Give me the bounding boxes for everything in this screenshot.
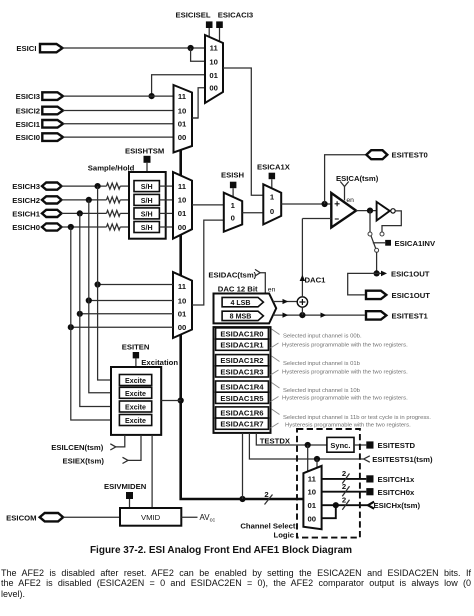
node bus to DAC (239, 496, 245, 502)
svg-text:S/H: S/H (141, 211, 153, 219)
S/H cell 3 (134, 208, 159, 219)
svg-text:TESTDX: TESTDX (260, 436, 291, 445)
svg-text:01: 01 (178, 120, 187, 129)
node comparator output (367, 208, 373, 214)
bus width marker 2 (264, 490, 272, 505)
svg-text:ESICA1X: ESICA1X (257, 162, 291, 171)
pin ESICH1 (12, 209, 61, 218)
svg-text:ESIDAC1R4: ESIDAC1R4 (220, 383, 264, 392)
wire ESICI to mux U1 input 11 (63, 47, 206, 49)
node ESICH0 (68, 224, 74, 230)
wire mux U1 output to ESICA1X mux input 1 (223, 68, 263, 195)
wire 4LSB to summer (273, 299, 297, 304)
node ESICH1 (77, 210, 83, 216)
control square ESICA1INV (373, 239, 436, 248)
signal ESIEX (62, 435, 141, 466)
node 8MSB to summer (299, 307, 305, 318)
svg-text:Selected input channel is 11b: Selected input channel is 11b or test cy… (283, 415, 431, 421)
svg-text:Hysteresis programmable with t: Hysteresis programmable with the two reg… (285, 422, 411, 428)
svg-text:1: 1 (270, 193, 275, 202)
svg-text:ESICA(tsm): ESICA(tsm) (336, 174, 379, 183)
svg-text:0: 0 (270, 207, 274, 216)
svg-text:ESICA1INV: ESICA1INV (395, 239, 436, 248)
svg-text:10: 10 (178, 296, 187, 305)
wire ESICI3 branch to mux U1 input 01 (152, 75, 205, 96)
svg-text:10: 10 (209, 57, 218, 66)
wire to ESITEST0 (325, 155, 366, 204)
svg-text:ESIC1OUT: ESIC1OUT (392, 291, 431, 300)
pin ESICI0 (16, 133, 63, 142)
paragraph (1, 568, 471, 599)
inverter U5 (377, 202, 396, 221)
svg-text:ESICISEL: ESICISEL (176, 11, 211, 20)
svg-text:Hysteresis programmable with t: Hysteresis programmable with the two reg… (282, 342, 408, 348)
node rail CH1 (77, 311, 83, 317)
wire switch common down (376, 252, 378, 273)
excite cell 4 (119, 415, 151, 426)
summer (adder) (297, 297, 307, 307)
svg-text:00: 00 (178, 323, 187, 332)
VMID block (120, 508, 181, 526)
wire excitation to VMID (151, 435, 153, 508)
node comparator input (322, 201, 328, 207)
resistor R4 (107, 224, 121, 230)
switch common (375, 248, 379, 252)
tsm arrow ESICHx (368, 501, 421, 510)
wire comparator output (356, 210, 377, 212)
node bus to excitation (178, 397, 184, 403)
svg-text:S/H: S/H (141, 183, 153, 191)
svg-text:ESIDAC1R7: ESIDAC1R7 (220, 420, 263, 429)
wire mux U2 output to mux U1 input 00 (192, 88, 205, 118)
wire ESICI1 to mux U2 input 01 (63, 123, 174, 125)
svg-text:01: 01 (308, 501, 317, 510)
pin ESICH0 (12, 223, 61, 232)
channel select bus (vertical) (181, 150, 304, 499)
svg-text:Excitation: Excitation (141, 358, 178, 367)
wire VMID to AVcc (181, 513, 215, 524)
svg-text:AVcc: AVcc (200, 513, 216, 524)
svg-text:00: 00 (308, 514, 317, 523)
svg-text:ESITCH0x: ESITCH0x (378, 488, 415, 497)
svg-text:Channel Select: Channel Select (240, 521, 296, 530)
register ESIDAC1R3 (216, 366, 269, 377)
svg-text:10: 10 (308, 488, 317, 497)
pin ESICI1 (16, 120, 63, 129)
svg-text:10: 10 (178, 106, 187, 115)
port square ESITCH0x (366, 488, 415, 497)
wire mux U2 output (192, 117, 198, 119)
pin ESICI3 (16, 92, 63, 101)
svg-text:ESICH3: ESICH3 (12, 182, 40, 191)
wire TESTDX (256, 433, 327, 445)
svg-text:11: 11 (308, 475, 317, 484)
signal arrow ESIC1OUT (377, 269, 430, 278)
pin ESIC1OUT (366, 291, 430, 300)
mux channel select decode (303, 466, 321, 529)
annotation R4/R5 (271, 383, 409, 402)
wire ESICH2 with resistor to S/H 2 (62, 199, 107, 201)
svg-text:ESICH0: ESICH0 (12, 223, 40, 232)
svg-text:Hysteresis programmable with t: Hysteresis programmable with the two reg… (282, 396, 408, 402)
svg-text:ESIDAC1R6: ESIDAC1R6 (220, 409, 263, 418)
svg-text:ESICI1: ESICI1 (16, 120, 41, 129)
switch lever (371, 236, 376, 249)
wire ESICI0 to mux U2 input 00 (63, 136, 174, 138)
svg-text:01: 01 (178, 310, 187, 319)
mux U3 (S/H select) (173, 172, 192, 239)
svg-text:Sample/Hold: Sample/Hold (88, 164, 135, 173)
annotation R2/R3 (271, 356, 409, 375)
register 4 LSB (222, 297, 263, 306)
node ESIC1OUT (374, 270, 380, 276)
svg-text:ESIDAC1R5: ESIDAC1R5 (220, 394, 264, 403)
control square ESICA1X (269, 173, 276, 189)
mux ESISH (224, 193, 242, 232)
sync block (327, 437, 354, 452)
caption (0, 545, 442, 556)
svg-text:Excite: Excite (125, 417, 146, 425)
svg-text:ESIVMIDEN: ESIVMIDEN (104, 482, 147, 491)
mux U4 (direct channel select) (173, 272, 192, 338)
pin ESICH3 (12, 182, 61, 191)
svg-text:ESISH: ESISH (221, 170, 245, 179)
svg-text:ESIDAC1R3: ESIDAC1R3 (220, 367, 263, 376)
svg-text:en: en (346, 197, 354, 204)
pin ESITEST1 (366, 311, 429, 320)
svg-text:Excite: Excite (125, 390, 146, 398)
control square ESISHTSM (144, 156, 151, 172)
svg-text:Selected input channel is 01b: Selected input channel is 01b (283, 361, 361, 367)
svg-text:ESITESTD: ESITESTD (378, 441, 416, 450)
resistor R3 (107, 210, 121, 216)
svg-text:ESICH1: ESICH1 (12, 209, 40, 218)
annotation R6/R7 (271, 409, 432, 428)
svg-text:ESICHx(tsm): ESICHx(tsm) (374, 501, 421, 510)
svg-text:S/H: S/H (141, 197, 153, 205)
control square ESISH (230, 182, 237, 197)
svg-text:ESISHTSM: ESISHTSM (125, 146, 164, 155)
register ESIDAC1R2 (216, 355, 269, 366)
svg-text:00: 00 (178, 223, 187, 232)
svg-text:1: 1 (231, 201, 236, 210)
svg-text:Sync.: Sync. (330, 441, 350, 450)
svg-text:VMID: VMID (141, 513, 161, 522)
wire mux U4 output to ESISH input 0 (192, 220, 224, 305)
control square ESITEN (133, 352, 139, 367)
node ESICH2 (86, 197, 92, 203)
sample/hold block (129, 172, 166, 239)
mux ESICA1X (263, 184, 281, 224)
wire mux U3 output to ESISH input 1 (192, 204, 224, 206)
svg-text:2: 2 (342, 469, 346, 478)
excite cell 2 (119, 387, 151, 398)
wire out 11 to ESITCH1x (322, 469, 367, 484)
rail CH0 (71, 227, 120, 420)
svg-text:ESIDAC1R1: ESIDAC1R1 (220, 341, 264, 350)
wire out 10 to ESITCH0x (322, 482, 367, 497)
svg-text:ESIDAC1R2: ESIDAC1R2 (220, 356, 263, 365)
wire comparator direct to switch (369, 211, 371, 232)
node rail CH3 (95, 281, 101, 287)
svg-text:ESICACI3: ESICACI3 (218, 11, 253, 20)
excite cell 1 (119, 375, 151, 386)
svg-text:ESIDAC1R0: ESIDAC1R0 (220, 330, 263, 339)
wire out 01 to ESICHx (322, 495, 368, 510)
pin ESICH2 (12, 196, 61, 205)
svg-text:Logic: Logic (274, 530, 295, 539)
svg-text:DAC 12 Bit: DAC 12 Bit (218, 284, 258, 293)
wires channel rails to mux U4 (98, 284, 173, 286)
register ESIDAC1R6 (216, 407, 269, 418)
pin ESICOM (6, 513, 63, 523)
svg-text:en: en (268, 286, 276, 293)
mux U2 (ESICI3-0 select) (174, 85, 193, 153)
wire ESISH output to ESICA1X input 0 (242, 212, 263, 214)
wire inverter output loop (382, 211, 401, 232)
excite cell 3 (119, 401, 151, 412)
svg-text:2: 2 (264, 490, 268, 499)
svg-text:Selected input channel is 10b: Selected input channel is 10b (283, 388, 361, 394)
svg-text:ESICH2: ESICH2 (12, 196, 40, 205)
node on ESICI3 wire (149, 93, 155, 99)
svg-text:Hysteresis programmable with t: Hysteresis programmable with the two reg… (282, 369, 408, 375)
DAC block (214, 294, 277, 324)
register ESIDAC1R1 (216, 339, 269, 350)
resistor R2 (107, 197, 121, 203)
pin ESICI2 (16, 107, 63, 116)
wire out 00 joins 01 (322, 505, 336, 518)
svg-text:10: 10 (178, 196, 187, 205)
wire ESICOM to VMID (63, 516, 120, 518)
node rail CH2 (86, 297, 92, 303)
excitation block (111, 367, 161, 435)
register ESIDAC1R5 (216, 392, 269, 403)
wires S/H to mux U3 (159, 185, 173, 187)
wire DAC1 to comparator minus (300, 219, 332, 297)
tsm arrow into DAC en (255, 269, 276, 293)
svg-text:01: 01 (178, 209, 187, 218)
svg-text:11: 11 (210, 44, 219, 53)
rail CH1 (80, 213, 120, 406)
node TESTDX branch (305, 442, 311, 472)
svg-text:S/H: S/H (141, 224, 153, 232)
control square ESIVMIDEN (126, 492, 133, 508)
svg-text:DAC1: DAC1 (305, 275, 327, 284)
svg-text:ESICI0: ESICI0 (16, 133, 40, 142)
pin ESITEST0 (366, 150, 427, 160)
svg-text:ESIC1OUT: ESIC1OUT (391, 269, 430, 278)
svg-text:2: 2 (342, 495, 346, 504)
S/H cell 1 (134, 181, 159, 192)
comparator ESICA (331, 193, 356, 228)
annotation R0/R1 (271, 329, 409, 348)
label Channel Select Logic (240, 521, 296, 539)
svg-text:ESICOM: ESICOM (6, 514, 36, 523)
signal ESILCEN (51, 435, 125, 452)
register 8 MSB (222, 311, 263, 321)
wire ESICH1 with resistor to S/H 3 (62, 212, 107, 214)
svg-text:ESIDAC(tsm): ESIDAC(tsm) (208, 270, 256, 279)
wire ESITESTS1 from DAC block (249, 433, 363, 459)
pin ESICI (16, 44, 62, 53)
svg-text:Excite: Excite (125, 377, 146, 385)
wire ESICH3 with resistor to S/H 1 (62, 185, 107, 187)
svg-text:ESICI2: ESICI2 (16, 107, 40, 116)
node rail CH0 (68, 324, 74, 330)
node on ESICI wire (188, 45, 194, 51)
node ESICH3 (95, 183, 101, 189)
port square ESITCH1x (366, 475, 415, 484)
control square ESICISEL (206, 21, 213, 37)
svg-text:00: 00 (209, 84, 218, 93)
control square ESICACI3 (216, 21, 223, 41)
wire branch to mux U1 input 10 (191, 48, 205, 61)
register ESIDAC1R7 (216, 418, 269, 429)
switch contact b (380, 232, 384, 236)
register ESIDAC1R0 (216, 328, 269, 339)
svg-text:ESITESTS1(tsm): ESITESTS1(tsm) (372, 455, 433, 464)
svg-text:ESITCH1x: ESITCH1x (378, 475, 415, 484)
wire sync to ESITESTD (354, 444, 366, 446)
wire ESICA1X output to comparator + (281, 203, 331, 205)
svg-text:Excite: Excite (125, 404, 146, 412)
rail CH3 (98, 186, 120, 380)
svg-text:ESITEST1: ESITEST1 (392, 311, 429, 320)
svg-text:ESITEN: ESITEN (122, 342, 150, 351)
switch contact a (368, 232, 372, 236)
DAC register file block (214, 327, 271, 433)
wire DAC block to select bus (242, 433, 244, 499)
svg-text:Selected input channel is 00b.: Selected input channel is 00b. (283, 334, 362, 340)
wire ESICI2 to mux U2 input 10 (63, 110, 174, 112)
svg-text:2: 2 (342, 482, 346, 491)
tsm arrow ESITESTS1 (364, 455, 433, 464)
wire 8MSB to ESITEST1 (273, 313, 365, 318)
svg-text:ESICI: ESICI (16, 44, 36, 53)
svg-text:4 LSB: 4 LSB (230, 299, 250, 307)
S/H cell 2 (134, 194, 159, 205)
S/H cell 4 (134, 222, 159, 233)
svg-text:11: 11 (178, 182, 187, 191)
svg-text:00: 00 (178, 133, 187, 142)
tsm arrow into comparator (340, 182, 348, 201)
svg-text:ESIEX(tsm): ESIEX(tsm) (62, 456, 104, 465)
svg-text:0: 0 (231, 214, 235, 223)
svg-text:ESITEST0: ESITEST0 (392, 151, 428, 160)
wire ESICH0 with resistor to S/H 4 (62, 226, 107, 228)
svg-text:ESICI3: ESICI3 (16, 92, 40, 101)
dashed box channel select logic (297, 429, 360, 538)
wire ESICI3 to mux U2 input 11 (63, 95, 174, 97)
svg-text:11: 11 (178, 92, 187, 101)
port square ESITESTD (366, 441, 415, 450)
svg-text:8 MSB: 8 MSB (230, 313, 252, 321)
rail CH2 (89, 200, 120, 393)
svg-text:01: 01 (209, 71, 218, 80)
wire to pin ESIC1OUT (348, 273, 377, 295)
node ESITESTS1 branch (314, 456, 320, 468)
resistor R1 (107, 183, 121, 189)
mux U1 (ESICISEL/ESICACI3) (205, 35, 223, 103)
wire excitation to select bus (161, 400, 181, 402)
svg-text:11: 11 (178, 282, 187, 291)
svg-text:ESILCEN(tsm): ESILCEN(tsm) (51, 443, 104, 452)
register ESIDAC1R4 (216, 381, 269, 392)
